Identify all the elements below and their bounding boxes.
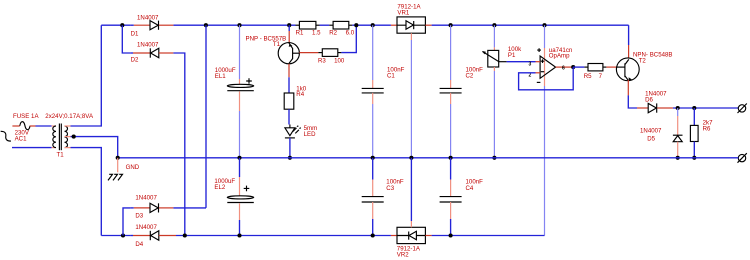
svg-text:T1: T1 <box>273 41 281 48</box>
wire: center tap to GND node <box>65 136 71 138</box>
svg-text:D3: D3 <box>135 213 143 220</box>
diode D3 1N4007 <box>130 195 206 220</box>
voltage regulator VR1 7912-1A <box>391 3 432 157</box>
svg-text:1.5: 1.5 <box>312 29 321 36</box>
wire: R5 to T2 base <box>606 66 616 68</box>
svg-text:T1: T1 <box>57 152 65 159</box>
junction: D5 on output row <box>676 106 680 110</box>
wire: bottom raw - rail <box>101 235 130 237</box>
junction: C2 on out rail <box>449 23 453 27</box>
svg-text:EL1: EL1 <box>215 73 226 80</box>
svg-text:100: 100 <box>334 58 345 65</box>
svg-text:2x24V;0.17A;8VA: 2x24V;0.17A;8VA <box>45 113 94 120</box>
resistor R4 1k0 <box>284 77 307 124</box>
wire: primary bottom <box>12 147 52 149</box>
junction: R6 on GND rail <box>692 156 696 160</box>
junction: C3 on bottom rail <box>371 233 375 237</box>
svg-text:1N4007: 1N4007 <box>137 41 159 48</box>
svg-text:R5: R5 <box>584 73 592 80</box>
junction: EL on GND rail <box>237 156 241 160</box>
svg-text:D2: D2 <box>131 57 139 64</box>
svg-text:1N4007: 1N4007 <box>640 128 662 135</box>
junction: EL2 on bottom rail <box>237 233 241 237</box>
diode D2 1N4007 <box>130 41 173 63</box>
junction: op-amp V+ on out rail <box>542 23 546 27</box>
svg-text:6: 6 <box>562 66 565 72</box>
svg-text:R2: R2 <box>329 29 337 36</box>
svg-text:T2: T2 <box>639 58 647 65</box>
svg-text:1N4007: 1N4007 <box>135 195 157 202</box>
diode D4 1N4007 <box>130 224 176 248</box>
svg-text:R3: R3 <box>318 58 326 65</box>
svg-text:1N4007: 1N4007 <box>135 224 157 231</box>
svg-text:D4: D4 <box>135 241 143 248</box>
capacitor C1 100nF <box>362 25 405 158</box>
wire: D6 to output terminal <box>673 107 738 109</box>
transformer T1 (2x24V;0.17A;8VA) <box>45 113 94 159</box>
svg-text:FUSE 1A: FUSE 1A <box>13 113 39 120</box>
svg-text:VR1: VR1 <box>397 9 410 16</box>
junction: P1 on out rail <box>492 23 496 27</box>
junction: C2/C4 on GND rail <box>449 156 453 160</box>
potentiometer P1 100k <box>482 25 522 158</box>
svg-text:C3: C3 <box>386 185 394 192</box>
svg-text:D1: D1 <box>131 31 139 38</box>
junction: center tap <box>72 135 76 139</box>
wire: feedback loop to pin 2 <box>519 67 574 90</box>
voltage regulator VR2 7912-1A <box>391 158 432 259</box>
transistor T1 PNP BC557B <box>246 25 300 77</box>
wire: secondary bottom to bottom riser <box>65 147 71 149</box>
junction: D2 branch on top rail <box>120 23 124 27</box>
resistor R2 6.0 <box>329 21 355 36</box>
diode D5 1N4007 <box>640 108 683 158</box>
resistor R1 1.5 <box>296 21 322 36</box>
junction: D3 riser on top rail <box>204 23 208 27</box>
svg-text:C4: C4 <box>466 185 474 192</box>
svg-text:D6: D6 <box>645 97 653 104</box>
svg-text:R1: R1 <box>296 29 304 36</box>
svg-text:R6: R6 <box>703 125 711 132</box>
svg-text:GND: GND <box>126 164 140 171</box>
capacitor C3 100nF <box>362 158 404 236</box>
wire: GND mid rail <box>118 157 739 159</box>
transistor T2 NPN BC548B <box>616 45 672 95</box>
wire: top + raw rail <box>101 24 130 26</box>
junction: R6 on output row <box>692 106 696 110</box>
wire: output to R5 <box>573 66 584 68</box>
junction: R3 on top rail <box>354 23 358 27</box>
svg-text:D5: D5 <box>647 135 655 142</box>
wire: out rail corner to T2 collector <box>628 25 630 45</box>
capacitor EL1 1000uF <box>215 25 254 158</box>
ground symbol <box>108 158 140 181</box>
resistor R5 7 <box>584 64 607 80</box>
AC source AC1 (230V sine symbol) <box>0 129 30 142</box>
wire: base lead to R3 <box>299 52 318 54</box>
wire: D3 cathode riser <box>205 25 207 208</box>
junction: D2 line on bottom rail <box>183 233 187 237</box>
svg-text:PNP - BC557B: PNP - BC557B <box>246 36 287 43</box>
output terminal GND <box>738 153 747 163</box>
junction: EL1 on top rail <box>237 23 241 27</box>
capacitor EL2 1000uF <box>214 158 253 236</box>
LED 5mm <box>285 125 317 158</box>
wire: D2 branch vertical <box>122 25 130 53</box>
svg-text:3: 3 <box>529 62 532 68</box>
wire: fuse to transformer primary <box>30 125 36 127</box>
diode D6 1N4007 <box>637 91 673 113</box>
svg-text:C2: C2 <box>466 73 474 80</box>
wire: D2 to bottom rail <box>173 53 184 236</box>
svg-text:EL2: EL2 <box>214 184 225 191</box>
wire: D3 anode branch <box>123 208 130 236</box>
svg-text:VR2: VR2 <box>397 252 410 259</box>
resistor R3 100 <box>318 25 356 64</box>
capacitor C4 100nF <box>440 158 484 236</box>
svg-text:7: 7 <box>599 73 603 80</box>
junction: P1 on GND rail <box>492 156 496 160</box>
diode D1 1N4007 <box>130 14 173 37</box>
wire: pot wiper to op-amp pin 3 <box>507 61 536 63</box>
junction: GND node <box>116 156 120 160</box>
junction: D5 on GND rail <box>676 156 680 160</box>
svg-text:R4: R4 <box>296 91 304 98</box>
wire: T2 emitter to D6 <box>628 95 637 108</box>
svg-text:AC1: AC1 <box>15 135 28 142</box>
output terminal +V <box>738 104 747 114</box>
op-amp U1 ua741cn <box>529 25 573 235</box>
wire: - out rail to op-amp V- <box>432 235 545 237</box>
junction: C1 on top rail <box>371 23 375 27</box>
junction: C4 on - out rail <box>449 233 453 237</box>
capacitor C2 100nF <box>440 25 484 158</box>
junction: LED on GND rail <box>288 156 292 160</box>
svg-text:OpAmp: OpAmp <box>549 53 570 60</box>
svg-text:1N4007: 1N4007 <box>137 14 159 21</box>
svg-text:C1: C1 <box>387 73 395 80</box>
junction: feedback on output <box>571 65 575 69</box>
junction: D3 branch on bottom rail <box>121 233 125 237</box>
junction: VR gnd pins on GND rail <box>409 156 413 160</box>
svg-text:P1: P1 <box>508 52 516 59</box>
resistor R6 2k7 <box>690 108 713 158</box>
wire: secondary top to left riser <box>65 125 71 127</box>
wire: primary top (AC to fuse) <box>12 125 19 127</box>
fuse FUSE 1A <box>13 113 39 130</box>
junction: C1/C3 on GND rail <box>371 156 375 160</box>
svg-text:LED: LED <box>304 131 316 138</box>
svg-text:6.0: 6.0 <box>346 29 355 36</box>
junction: T1 emitter on top rail <box>287 23 291 27</box>
